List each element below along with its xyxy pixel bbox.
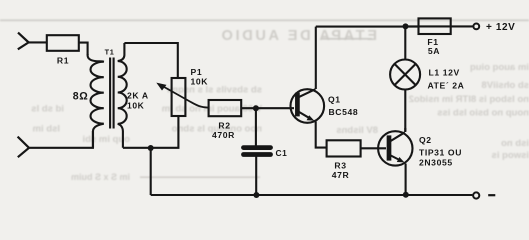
label P1 10K	[191, 77, 209, 87]
transistor Q1 circle	[291, 89, 325, 123]
+12V terminal	[473, 24, 479, 30]
svg-text:470R: 470R	[212, 130, 235, 140]
bottom rail	[151, 148, 473, 195]
svg-text:P1: P1	[191, 67, 203, 77]
fuse F1	[406, 18, 473, 34]
transformer T1 core lines	[110, 58, 114, 129]
top rail	[316, 26, 419, 28]
transistor Q2 collector	[390, 128, 406, 142]
label 8ohm	[73, 91, 89, 103]
transistor Q2 circle	[378, 131, 412, 165]
output terminal	[473, 192, 479, 198]
label 2N3055	[419, 157, 453, 167]
svg-text:10K: 10K	[127, 101, 145, 111]
svg-text:2N3055: 2N3055	[419, 157, 453, 167]
label ATE 2A	[428, 81, 465, 91]
faint equation row	[140, 177, 260, 178]
wire input1 to R1	[29, 41, 47, 43]
wire junction down to C1	[255, 108, 257, 145]
svg-text:8Ω: 8Ω	[73, 91, 89, 103]
svg-text:ETAPA DE AUDIO: ETAPA DE AUDIO	[219, 28, 377, 44]
svg-text:R2: R2	[218, 121, 230, 131]
svg-text:Q1: Q1	[328, 94, 341, 104]
svg-text:sb sbsvils sl s nsqmi: sb sbsvils sl s nsqmi	[167, 85, 262, 96]
label 10K secondary	[127, 101, 145, 111]
svg-text:2K A: 2K A	[127, 91, 149, 101]
transistor Q2 base bar	[387, 135, 392, 160]
node dot C1/rail	[253, 192, 259, 198]
input arrow top	[18, 33, 29, 50]
label R2	[218, 121, 230, 131]
wire input2 to primary bottom	[30, 131, 93, 148]
svg-text:im S x S buim: im S x S buim	[71, 172, 130, 182]
svg-text:noup no bsio lsb iss: noup no bsio lsb iss	[437, 108, 529, 119]
svg-text:id sb ls: id sb ls	[31, 104, 64, 115]
label P1	[191, 67, 203, 77]
potentiometer P1 body	[172, 78, 186, 116]
wire C1 to bottom rail	[255, 157, 257, 196]
label F1	[427, 37, 438, 47]
label Q2	[419, 135, 432, 145]
wire R2 to Q1 base	[241, 107, 294, 109]
svg-text:R1: R1	[57, 56, 69, 66]
resistor R3	[327, 140, 361, 156]
label +12V	[486, 22, 515, 33]
label L1 12V	[429, 68, 460, 78]
label 470R	[212, 130, 235, 140]
wire rail dot down to lamp	[404, 26, 406, 59]
transistor Q1 emitter with arrow	[298, 112, 326, 148]
node dot R2/C1 junction	[253, 105, 259, 111]
resistor R2	[209, 100, 242, 116]
transformer T1 primary winding	[88, 54, 104, 148]
capacitor C1	[244, 148, 271, 155]
svg-text:no lsboq is 8ITR im nsido2: no lsboq is 8ITR im nsido2	[409, 94, 529, 105]
svg-text:ATE´ 2A: ATE´ 2A	[428, 81, 465, 91]
svg-text:5A: 5A	[428, 46, 440, 56]
svg-text:im auoq oiuq: im auoq oiuq	[470, 62, 529, 73]
label R3	[334, 161, 346, 171]
svg-text:+ 12V: + 12V	[486, 22, 515, 33]
svg-text:iswoq is: iswoq is	[492, 150, 529, 161]
label TIP31 OU	[419, 147, 462, 157]
minus sign	[488, 194, 495, 196]
wire lamp to Q2 collector	[404, 89, 406, 131]
svg-text:L1 12V: L1 12V	[429, 68, 460, 78]
svg-text:isb no: isb no	[501, 138, 529, 149]
lamp L1	[390, 60, 420, 90]
label BC548	[329, 107, 359, 117]
wire secondary top to P1 top	[124, 43, 177, 78]
transistor Q1 base bar	[295, 93, 300, 117]
input arrow bottom	[18, 137, 29, 158]
wire secondary bottom / node to P1 bottom	[123, 116, 178, 148]
resistor R1	[47, 35, 79, 51]
transistor Q1 collector	[298, 27, 316, 98]
label T1	[105, 47, 115, 56]
transformer T1 secondary winding	[118, 43, 127, 148]
potentiometer P1 wiper arrow	[156, 83, 208, 108]
svg-text:C1: C1	[276, 148, 288, 158]
label C1	[276, 148, 288, 158]
node dot rail/lamp branch	[403, 23, 409, 29]
svg-text:10K: 10K	[191, 77, 209, 87]
svg-text:sb ohsiiV8: sb ohsiiV8	[481, 80, 529, 91]
svg-text:Q2: Q2	[419, 135, 432, 145]
node dot secondary/rail branch	[148, 145, 154, 151]
wire R1 to transformer primary top	[79, 43, 88, 55]
label R1	[57, 56, 69, 66]
transistor Q2 emitter with arrow	[390, 155, 406, 195]
label 2K A	[127, 91, 149, 101]
wire R3 to Q2 base	[361, 147, 386, 149]
label 47R	[332, 170, 350, 180]
svg-text:47R: 47R	[332, 170, 350, 180]
svg-text:BC548: BC548	[329, 107, 359, 117]
faint page rule	[0, 19, 529, 21]
svg-text:T1: T1	[105, 47, 115, 56]
svg-text:lsb im: lsb im	[33, 124, 60, 135]
svg-text:TIP31 OU: TIP31 OU	[419, 147, 462, 157]
label Q1	[328, 94, 341, 104]
node dot Q2 emitter/rail	[403, 192, 409, 198]
svg-text:8V lisbns: 8V lisbns	[336, 125, 378, 136]
label 5A	[428, 46, 440, 56]
